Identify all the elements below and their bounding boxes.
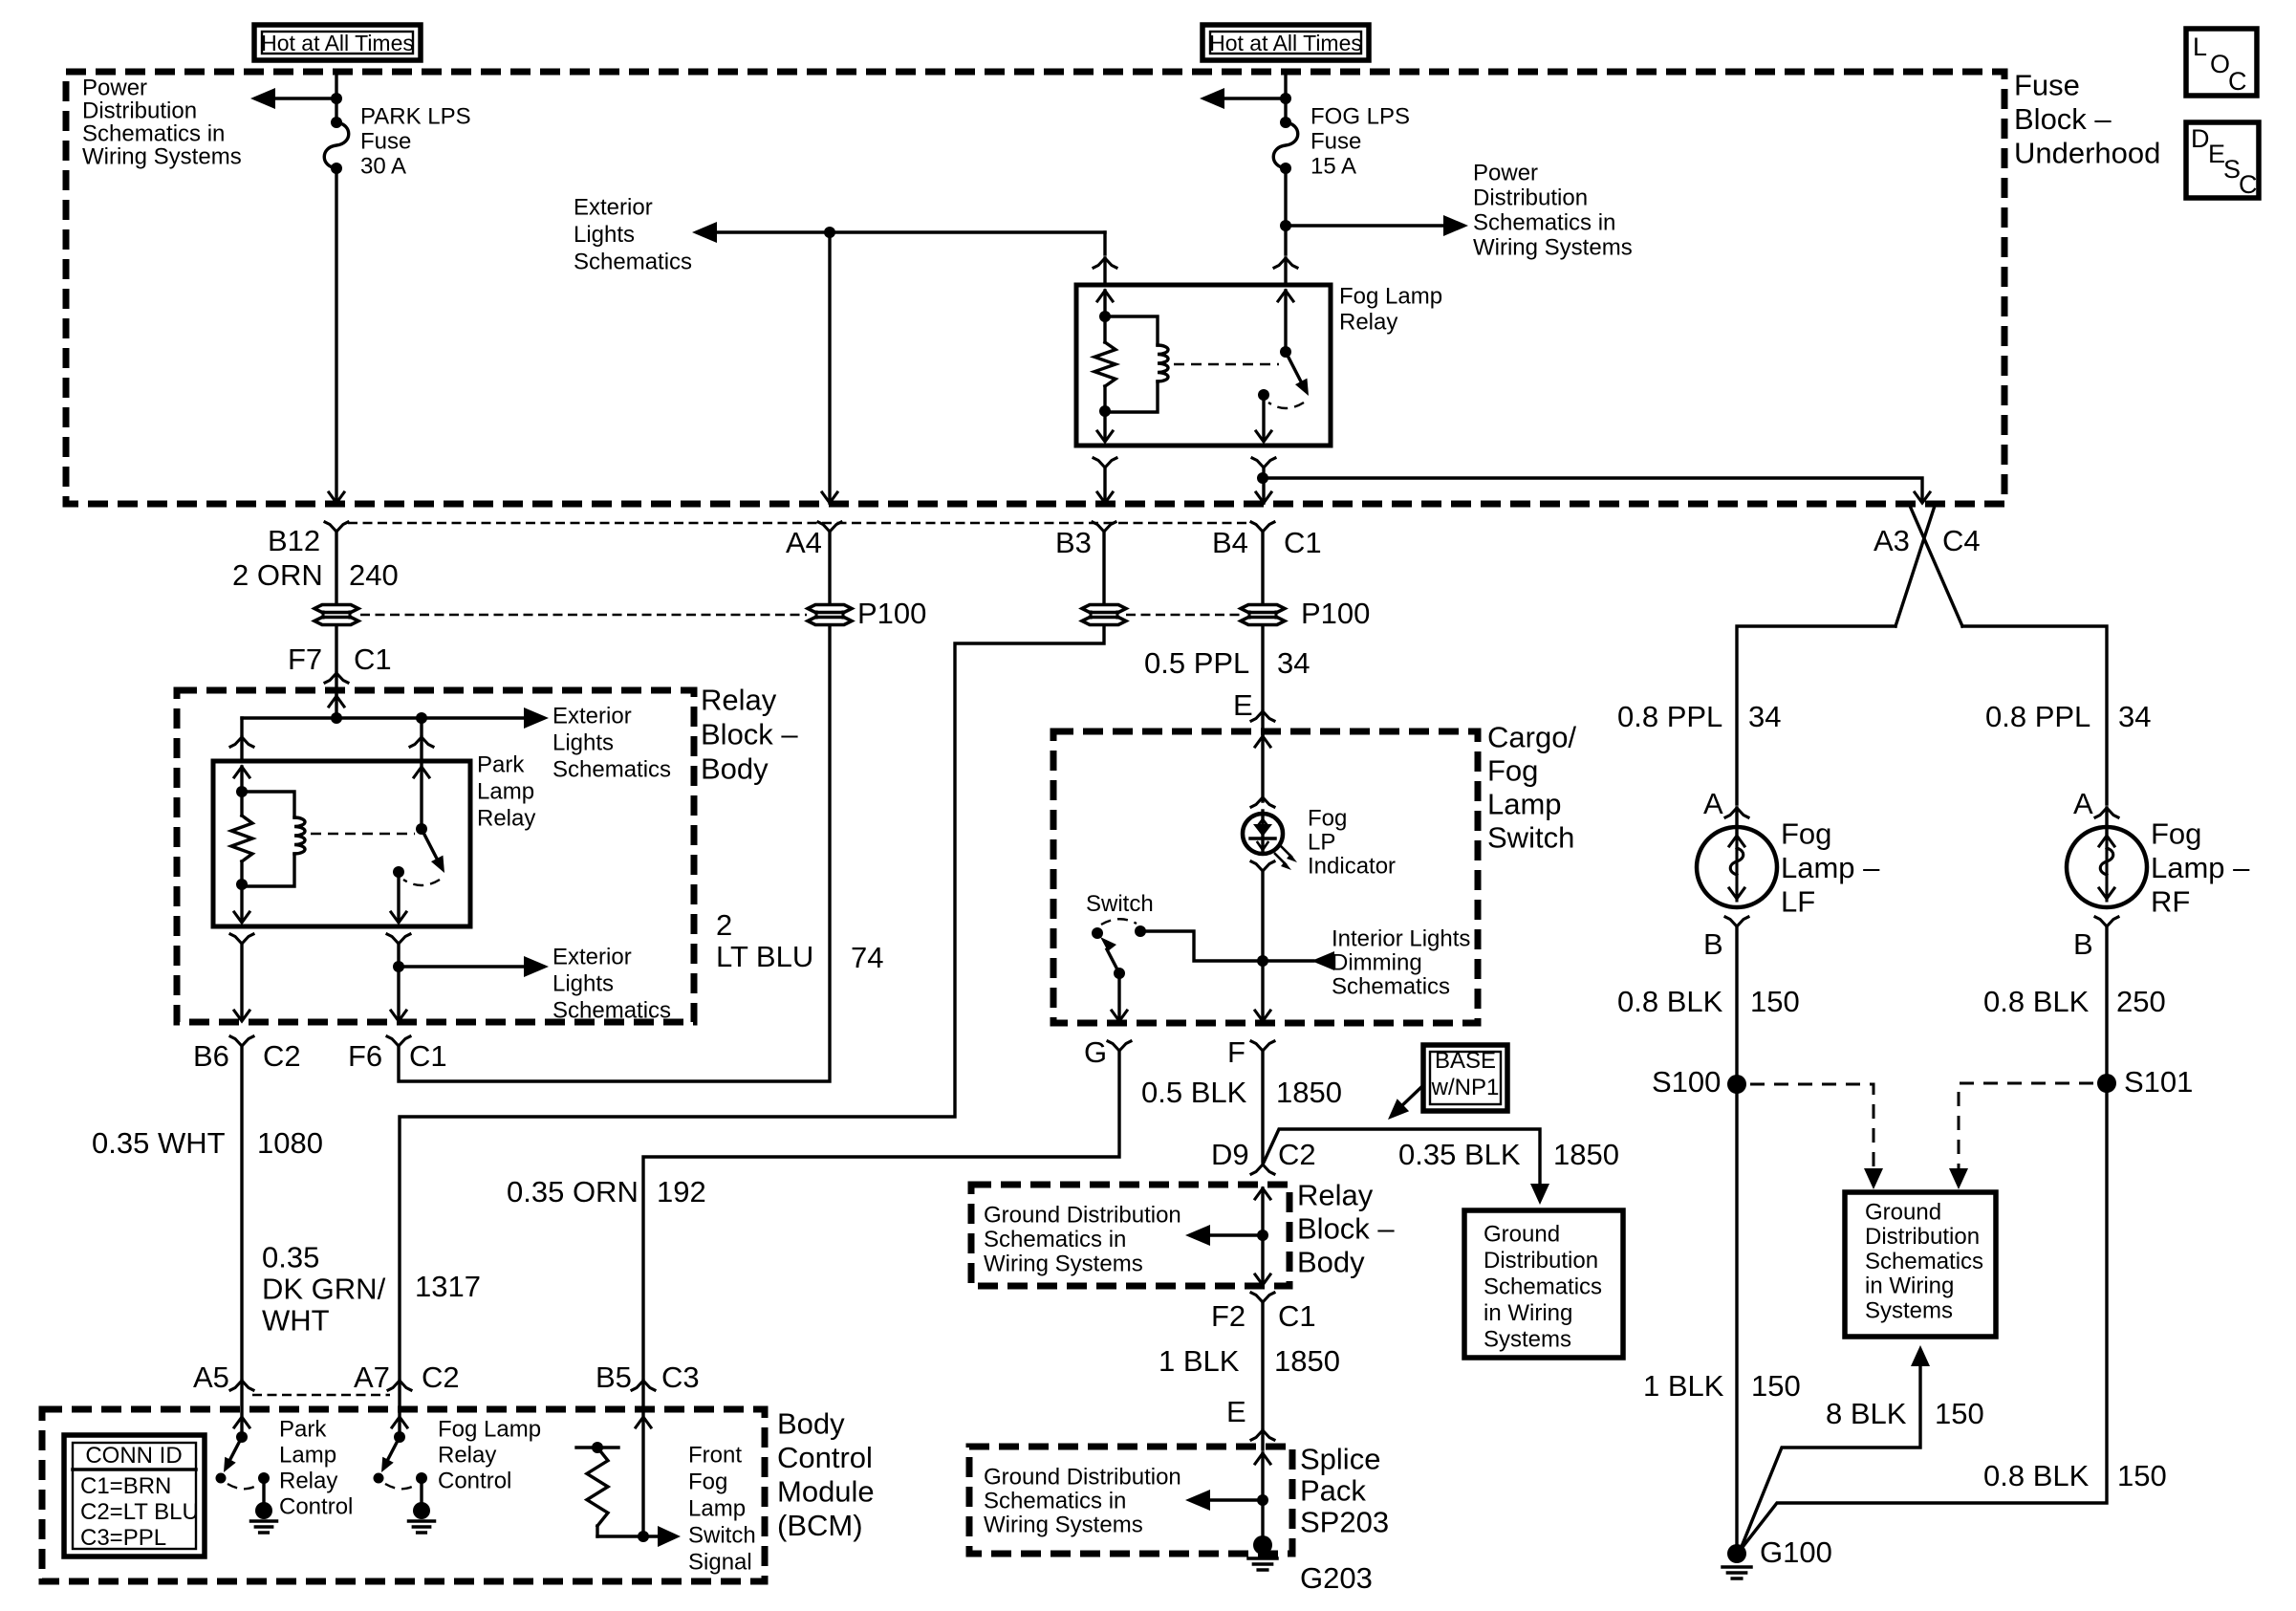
- arrow down in fog lamp LF: [1729, 888, 1744, 899]
- lever fog lamp relay control: [387, 1437, 400, 1461]
- svg-text:Relay: Relay: [477, 805, 535, 831]
- arrow up in fog lamp LF: [1729, 836, 1744, 846]
- arrow to power distribution schematics (fog): [1200, 88, 1224, 109]
- arrow up inside fog relay switch pin: [1278, 291, 1293, 301]
- pivot dot park relay switch: [416, 823, 427, 835]
- svg-text:B: B: [1703, 927, 1723, 961]
- wire to power distribution arrow (right): [1286, 224, 1445, 227]
- ground terminal dot fog control: [413, 1502, 430, 1519]
- connector chevron below park relay output: [387, 934, 410, 944]
- svg-text:FOG LPS: FOG LPS: [1310, 103, 1410, 129]
- arrow crosses cargo border at F: [1255, 1011, 1270, 1021]
- svg-text:0.5 BLK: 0.5 BLK: [1141, 1076, 1247, 1109]
- svg-text:150: 150: [1750, 985, 1800, 1018]
- junction dot fog relay coil top: [1099, 311, 1111, 322]
- resistor top bar BCM: [576, 1446, 618, 1448]
- arrow up inside park relay switch pin: [414, 767, 429, 777]
- svg-text:Schematics in: Schematics in: [984, 1488, 1126, 1513]
- svg-text:D9: D9: [1211, 1138, 1249, 1171]
- svg-text:Fuse: Fuse: [360, 128, 411, 154]
- connector chevron B fog lamp LF: [1725, 917, 1748, 926]
- svg-text:Schematics: Schematics: [552, 756, 671, 782]
- svg-text:0.35 BLK: 0.35 BLK: [1398, 1138, 1521, 1171]
- svg-text:Body: Body: [1297, 1245, 1365, 1278]
- connector chevron B6: [230, 1036, 253, 1046]
- dashed wire S101 to ground distribution box: [1959, 1083, 2093, 1182]
- dashed arc fog lamp relay control: [385, 1484, 416, 1489]
- dashed link coil to switch (fog relay): [1174, 363, 1279, 365]
- wire fog relay left pin to B3: [1103, 468, 1106, 503]
- arrow up inside BCM at A5: [234, 1417, 249, 1427]
- svg-text:Lamp: Lamp: [477, 778, 534, 804]
- svg-text:Wiring Systems: Wiring Systems: [82, 143, 242, 169]
- arrow crosses relay block border at F6: [391, 1011, 406, 1021]
- fog lamp LF circle: [1697, 827, 1777, 907]
- dashed arc park relay switch: [403, 880, 440, 885]
- connector split X at A3/C4: [1895, 506, 1935, 626]
- arrow up inside cargo box at E: [1255, 736, 1270, 747]
- wire fog control contact to ground: [420, 1478, 422, 1504]
- dashed link coil to switch (park relay): [311, 833, 415, 835]
- wire fog relay resistor bottom stub: [1103, 386, 1106, 412]
- svg-text:Underhood: Underhood: [2014, 136, 2160, 169]
- svg-text:Wiring Systems: Wiring Systems: [1473, 234, 1633, 260]
- svg-text:Body: Body: [777, 1406, 845, 1440]
- fuse block underhood dashed border: [66, 72, 2004, 504]
- svg-text:F2: F2: [1211, 1299, 1245, 1333]
- svg-text:Lamp: Lamp: [688, 1495, 746, 1521]
- svg-text:Schematics: Schematics: [552, 997, 671, 1023]
- svg-text:Exterior: Exterior: [552, 703, 632, 729]
- svg-text:0.8 BLK: 0.8 BLK: [1983, 985, 2090, 1018]
- svg-text:Power: Power: [1473, 160, 1538, 185]
- svg-text:O: O: [2210, 50, 2230, 78]
- svg-text:C: C: [2228, 67, 2247, 96]
- arrow crosses border at B3: [1097, 492, 1113, 503]
- svg-text:RF: RF: [2151, 884, 2190, 918]
- body control module dashed border: [42, 1409, 765, 1581]
- resistor fog relay: [1094, 342, 1116, 386]
- wire park feed rail: [242, 716, 528, 719]
- connector chevron E at splice pack: [1251, 1430, 1274, 1440]
- contact dot fog control lever end: [374, 1473, 384, 1484]
- arrowhead park relay lever: [431, 856, 444, 873]
- contact dot park control ground side: [258, 1472, 270, 1484]
- connector P100 on B3 wire: [1082, 605, 1126, 613]
- connector chevron into fog relay (switch side): [1274, 258, 1297, 268]
- contact dot cargo switch left: [1092, 927, 1103, 939]
- junction dot FOG feed: [1280, 93, 1291, 104]
- ground dot G100: [1727, 1544, 1746, 1563]
- wire PARK LPS feed from hot bus: [335, 73, 337, 122]
- svg-text:C1: C1: [1278, 1299, 1316, 1333]
- connector chevron F2: [1251, 1293, 1274, 1302]
- svg-text:G: G: [1084, 1035, 1107, 1069]
- connector chevron A fog lamp RF: [2095, 808, 2118, 817]
- arrow to exterior lights schematics (lower): [524, 956, 549, 977]
- junction dot fog output to lamps: [1257, 472, 1268, 484]
- connector chevron B3: [1093, 522, 1116, 532]
- arrow fog relay coil pin exits box: [1097, 431, 1113, 442]
- svg-text:Control: Control: [279, 1493, 353, 1519]
- svg-text:Lamp –: Lamp –: [1781, 851, 1880, 884]
- wire chevron to park relay box right: [420, 737, 422, 761]
- connector P100 on A4 wire: [808, 605, 852, 613]
- ground symbol park control: [251, 1519, 277, 1523]
- wire fog relay coil bottom link: [1105, 381, 1158, 412]
- connector chevron into park relay coil: [230, 737, 253, 747]
- wire S101 to G100 (0.8 BLK 150): [1740, 1083, 2107, 1551]
- resistor park relay: [231, 816, 252, 861]
- ground distribution schematics box (fog lamps): [1845, 1192, 1996, 1337]
- wire fog relay coil top link: [1105, 316, 1158, 345]
- svg-text:0.8 PPL: 0.8 PPL: [1985, 700, 2090, 733]
- arrow fog relay output exits box: [1256, 431, 1271, 442]
- wire fog lamp RF to S101: [2105, 926, 2108, 1083]
- junction dot rail at F7: [331, 712, 342, 724]
- junction dot dimmer tap: [1257, 955, 1268, 967]
- wire park relay resistor bottom stub: [240, 861, 243, 886]
- svg-text:Schematics in: Schematics in: [1473, 209, 1615, 235]
- lever fog relay switch: [1286, 352, 1302, 383]
- wire G to B5 (0.35 ORN 192): [643, 1051, 1119, 1378]
- fog lamp RF circle: [2067, 827, 2147, 907]
- arrow to ground distribution (relay block 2): [1185, 1225, 1210, 1246]
- svg-text:0.35 WHT: 0.35 WHT: [92, 1126, 226, 1160]
- svg-text:Distribution: Distribution: [82, 98, 197, 123]
- arrow up in fog lamp RF: [2099, 836, 2114, 846]
- svg-text:A: A: [2073, 787, 2093, 820]
- svg-text:240: 240: [349, 558, 399, 592]
- svg-text:Fog Lamp: Fog Lamp: [1339, 283, 1442, 309]
- arrow crosses border at B4: [1256, 492, 1271, 503]
- svg-text:DK GRN/: DK GRN/: [262, 1272, 386, 1305]
- wire A7 into BCM: [398, 1381, 401, 1437]
- svg-text:w/NP1: w/NP1: [1431, 1075, 1500, 1100]
- svg-text:34: 34: [1277, 646, 1310, 680]
- wire A4 chevron to P100: [828, 532, 831, 603]
- wire E into splice pack: [1261, 1430, 1264, 1449]
- svg-text:Exterior: Exterior: [574, 194, 653, 220]
- svg-text:Relay: Relay: [1339, 309, 1397, 335]
- svg-text:Lamp: Lamp: [1487, 787, 1562, 820]
- svg-text:Pack: Pack: [1300, 1473, 1366, 1507]
- wire B6 to A5 (0.35 WHT 1080): [240, 1046, 243, 1378]
- wire fog lamp LF to S100: [1735, 926, 1738, 1084]
- fuse FOG LPS 15A: [1273, 122, 1298, 168]
- svg-text:Indicator: Indicator: [1308, 853, 1396, 879]
- svg-text:P100: P100: [857, 597, 926, 630]
- arrow out of ground distribution box (8 BLK): [1911, 1345, 1930, 1366]
- wire rail drop to park relay switch: [420, 718, 422, 734]
- wire B12 to P100: [335, 532, 337, 603]
- arrow into ground distribution box (0.35 BLK): [1530, 1184, 1549, 1205]
- dashed arc fog relay switch: [1268, 403, 1304, 408]
- contact dot park control lever end: [216, 1473, 227, 1484]
- junction dot F6 to exterior lights: [393, 961, 404, 972]
- svg-text:Signal: Signal: [688, 1549, 752, 1575]
- svg-text:Systems: Systems: [1865, 1298, 1953, 1324]
- svg-text:Fog: Fog: [1308, 805, 1347, 831]
- svg-text:F6: F6: [348, 1039, 382, 1073]
- wire F6 to A4 net (2 LT BLU 74): [399, 626, 830, 1081]
- svg-text:F7: F7: [288, 642, 322, 676]
- wire to power distribution arrow (left): [273, 97, 336, 99]
- svg-text:A7: A7: [354, 1361, 390, 1394]
- dashed arc cargo switch: [1101, 919, 1137, 925]
- svg-text:Fog: Fog: [1487, 753, 1538, 787]
- wire fog relay resistor top stub: [1103, 316, 1106, 342]
- arrow wire crosses border at A4: [822, 492, 837, 503]
- wire park relay coil pin down: [240, 886, 243, 921]
- svg-text:150: 150: [1751, 1369, 1801, 1403]
- wire cargo switch contact to dimmer node: [1140, 931, 1263, 961]
- wire exterior lights feed horizontal: [715, 230, 1105, 233]
- svg-text:Schematics in: Schematics in: [82, 120, 225, 146]
- svg-text:192: 192: [657, 1175, 706, 1208]
- arrowhead fog relay lever: [1295, 379, 1309, 396]
- connector chevron F: [1251, 1041, 1274, 1051]
- splice dot G203: [1253, 1535, 1272, 1555]
- connector chevron into fog relay (coil side): [1094, 258, 1116, 268]
- contact dot cargo switch right: [1135, 925, 1146, 937]
- svg-text:S100: S100: [1652, 1065, 1721, 1099]
- wire drop into fog relay coil pin: [1103, 232, 1106, 254]
- svg-text:A3: A3: [1874, 524, 1910, 557]
- svg-text:C1=BRN: C1=BRN: [80, 1473, 171, 1499]
- svg-text:A5: A5: [193, 1361, 229, 1394]
- svg-text:B12: B12: [268, 524, 320, 557]
- arrow up inside indicator: [1258, 819, 1268, 826]
- svg-text:Control: Control: [438, 1468, 511, 1493]
- svg-text:1080: 1080: [257, 1126, 323, 1160]
- arrowhead fog control lever: [381, 1457, 394, 1472]
- DESC box: [2186, 122, 2259, 198]
- arrow line from BASE box: [1398, 1087, 1421, 1109]
- svg-text:D: D: [2191, 124, 2210, 153]
- junction dot relay block 2 ground tap: [1257, 1230, 1268, 1241]
- svg-text:1 BLK: 1 BLK: [1643, 1369, 1724, 1403]
- wire through indicator: [1261, 811, 1264, 853]
- svg-text:G203: G203: [1300, 1561, 1373, 1595]
- svg-text:Switch: Switch: [1487, 820, 1574, 854]
- wire dimmer node to arrow: [1263, 959, 1313, 962]
- svg-text:C2: C2: [422, 1361, 460, 1394]
- svg-text:Exterior: Exterior: [552, 944, 632, 969]
- svg-text:74: 74: [851, 941, 883, 974]
- ground terminal dot park control: [255, 1502, 272, 1519]
- ground symbol G203: [1248, 1557, 1277, 1560]
- svg-text:Module: Module: [777, 1474, 875, 1508]
- svg-text:E: E: [1226, 1395, 1246, 1428]
- svg-text:Lights: Lights: [574, 222, 635, 248]
- wire through fog lamp LF: [1735, 808, 1738, 834]
- wire P100 to F7: [335, 626, 337, 670]
- arrow down in fog lamp RF: [2099, 888, 2114, 899]
- connector chevron B4: [1251, 522, 1274, 532]
- svg-text:Distribution: Distribution: [1473, 185, 1588, 210]
- connector chevron below fog relay left pin: [1094, 458, 1116, 468]
- wire E into cargo box: [1261, 711, 1264, 734]
- wire FOG LPS feed from hot bus: [1284, 73, 1287, 122]
- ground symbol G100: [1722, 1565, 1751, 1569]
- wire resistor bottom link: [597, 1535, 643, 1537]
- arrowhead park control lever: [224, 1457, 236, 1472]
- wire fog relay coil pin down: [1103, 412, 1106, 440]
- svg-text:Fuse: Fuse: [1310, 128, 1361, 154]
- svg-text:1850: 1850: [1274, 1344, 1340, 1378]
- svg-text:(BCM): (BCM): [777, 1509, 863, 1542]
- svg-text:Lamp –: Lamp –: [2151, 851, 2250, 884]
- connector chevron A fog lamp LF: [1725, 808, 1748, 817]
- wire F to D9 (0.5 BLK 1850): [1261, 1051, 1264, 1162]
- junction dot PARK feed: [331, 93, 342, 104]
- arrow up inside splice pack: [1255, 1453, 1270, 1464]
- junction dot rail at switch riser: [416, 712, 427, 724]
- fog lamp relay box: [1076, 285, 1331, 446]
- arrow up inside relay block 2: [1255, 1188, 1270, 1199]
- svg-text:Dimming: Dimming: [1332, 949, 1422, 975]
- svg-text:Schematics: Schematics: [1332, 973, 1450, 999]
- BASE w/NP1 box: [1423, 1045, 1507, 1111]
- svg-text:1 BLK: 1 BLK: [1159, 1344, 1240, 1378]
- svg-text:Splice: Splice: [1300, 1442, 1380, 1475]
- svg-text:Fuse: Fuse: [2014, 68, 2080, 101]
- connector chevron into park relay switch: [410, 737, 433, 747]
- svg-text:Fog: Fog: [1781, 816, 1831, 850]
- svg-text:0.35: 0.35: [262, 1240, 319, 1274]
- wire A5 into BCM: [240, 1381, 243, 1437]
- wire park relay coil top link: [242, 792, 294, 817]
- wire fog relay switch riser: [1284, 291, 1287, 352]
- connector chevron below park relay coil: [230, 934, 253, 944]
- svg-text:LF: LF: [1781, 884, 1815, 918]
- wire to fog lamp RF: [1962, 626, 2107, 804]
- contact dot park relay switch: [393, 866, 404, 878]
- wire indicator to F exit: [1261, 871, 1264, 1019]
- arrow down inside indicator: [1258, 842, 1268, 850]
- wire resistor to signal node: [596, 1526, 598, 1536]
- wire rail drop to park relay coil: [240, 718, 243, 734]
- svg-text:Block –: Block –: [1297, 1211, 1395, 1245]
- svg-text:Ground Distribution: Ground Distribution: [984, 1202, 1181, 1228]
- splice pack SP203 dashed border: [969, 1447, 1292, 1554]
- svg-text:C2: C2: [1278, 1138, 1316, 1171]
- svg-text:Schematics: Schematics: [574, 249, 692, 274]
- svg-text:Relay: Relay: [701, 683, 777, 716]
- connector chevron F6: [387, 1036, 410, 1046]
- arrow to exterior lights schematics (rail): [524, 708, 549, 729]
- svg-text:A: A: [1703, 787, 1723, 820]
- svg-text:Park: Park: [279, 1416, 327, 1442]
- arrow into ground distribution box from S100: [1864, 1168, 1883, 1189]
- hot at all times label box (left): [254, 25, 421, 60]
- thin dashed connector line below fuse block: [348, 522, 1252, 524]
- dashed arc park lamp relay control: [227, 1484, 258, 1489]
- svg-text:Lights: Lights: [552, 970, 614, 996]
- hot at all times label box (right): [1202, 25, 1369, 60]
- splice dot S101: [2097, 1074, 2116, 1093]
- junction dot park relay coil top: [236, 786, 248, 797]
- svg-text:30 A: 30 A: [360, 153, 406, 179]
- svg-text:BASE: BASE: [1435, 1048, 1496, 1074]
- svg-text:Body: Body: [701, 751, 769, 785]
- wire F7 into relay block body: [335, 673, 337, 694]
- wire 8 BLK to G100: [1741, 1364, 1920, 1549]
- svg-text:1850: 1850: [1276, 1076, 1342, 1109]
- svg-text:C1: C1: [409, 1039, 447, 1073]
- arrow up inside relay block at F7: [329, 696, 344, 707]
- connector chevron D9: [1251, 1165, 1274, 1174]
- svg-text:Switch: Switch: [688, 1522, 756, 1548]
- svg-text:L: L: [2193, 33, 2207, 61]
- svg-text:34: 34: [2118, 700, 2151, 733]
- pivot dot fog lamp relay control: [394, 1431, 405, 1443]
- wire B3 to P100: [1102, 532, 1105, 603]
- wire cargo switch to G exit: [1117, 973, 1120, 1019]
- svg-text:B: B: [2073, 927, 2093, 961]
- svg-text:150: 150: [2117, 1459, 2167, 1492]
- svg-text:0.8 PPL: 0.8 PPL: [1617, 700, 1722, 733]
- wire fog relay output pin: [1262, 395, 1265, 440]
- wire to ground distribution arrow (splice pack): [1210, 1498, 1263, 1501]
- arrow to ground distribution (splice pack): [1185, 1490, 1210, 1511]
- junction dot park relay coil bottom: [236, 879, 248, 890]
- wire FOG LPS fuse to relay: [1284, 168, 1287, 254]
- park lamp relay box: [213, 761, 470, 926]
- splice dot S100: [1727, 1075, 1746, 1094]
- arrow crosses border at A3/C4: [1915, 492, 1930, 503]
- svg-text:C2=LT BLU: C2=LT BLU: [80, 1499, 199, 1525]
- relay block body 2 dashed border: [971, 1185, 1289, 1286]
- svg-text:Switch: Switch: [1086, 891, 1154, 917]
- svg-text:Lamp: Lamp: [279, 1442, 336, 1468]
- lever park lamp relay control: [229, 1437, 242, 1461]
- lever park relay switch: [422, 829, 438, 860]
- wire to power distribution arrow (fog left): [1223, 97, 1286, 99]
- connector P100 on B12 wire: [314, 605, 358, 613]
- wire chevron to fog relay box (switch side): [1284, 258, 1287, 285]
- svg-text:C3: C3: [661, 1361, 700, 1394]
- svg-text:Distribution: Distribution: [1865, 1224, 1980, 1250]
- arrow up inside park relay left pin: [234, 767, 249, 777]
- wire F6 drop: [397, 944, 400, 1019]
- svg-text:Wiring Systems: Wiring Systems: [984, 1251, 1143, 1276]
- connector chevron above fog LP indicator: [1251, 797, 1274, 807]
- wire B3 P100 down and across (DK GRN/WHT): [400, 626, 1104, 1378]
- svg-text:CONN ID: CONN ID: [85, 1443, 182, 1469]
- svg-text:B6: B6: [193, 1039, 229, 1073]
- wire park relay coil bottom link: [242, 854, 294, 886]
- fuse PARK LPS 30A: [324, 122, 349, 168]
- wire to front fog arrow: [643, 1535, 660, 1537]
- wire E to indicator: [1261, 736, 1264, 801]
- wire PARK LPS fuse to B12: [335, 168, 337, 503]
- arrow up inside BCM at A7: [392, 1417, 407, 1427]
- svg-text:0.35 ORN: 0.35 ORN: [507, 1175, 639, 1208]
- svg-text:Schematics: Schematics: [1484, 1274, 1602, 1299]
- svg-text:C2: C2: [263, 1039, 301, 1073]
- svg-text:Control: Control: [777, 1441, 873, 1474]
- arrow front fog lamp switch signal: [658, 1526, 681, 1547]
- wire S100 to G100 (1 BLK 150): [1735, 1084, 1738, 1554]
- svg-text:Hot at All Times: Hot at All Times: [1209, 31, 1362, 55]
- junction dot A4 tap: [824, 227, 835, 238]
- relay block body dashed border: [177, 690, 694, 1022]
- arrow to power distribution schematics (right): [1443, 215, 1468, 236]
- arrow into ground distribution box from S101: [1949, 1168, 1968, 1189]
- pivot dot cargo switch: [1114, 968, 1125, 979]
